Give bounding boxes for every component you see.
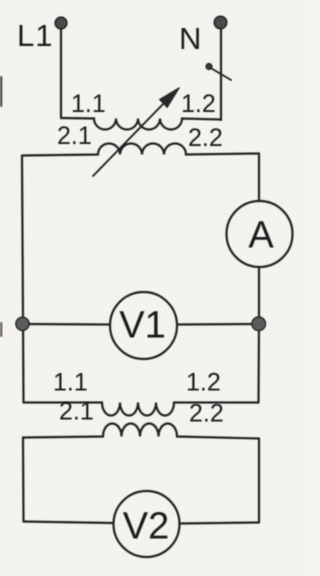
svg-text:V2: V2 bbox=[123, 506, 169, 548]
terminal L1 bbox=[55, 17, 67, 29]
transformer T2 primary winding 1.1-1.2 bbox=[24, 403, 259, 416]
svg-text:2.1: 2.1 bbox=[59, 398, 94, 426]
transformer T1 secondary winding 2.1-2.2 bbox=[22, 144, 259, 156]
wire V2 loop bottom left bbox=[24, 522, 114, 524]
svg-text:V1: V1 bbox=[119, 305, 165, 347]
wire V2 loop bottom right bbox=[180, 523, 260, 524]
wire L1 down bbox=[60, 29, 62, 118]
variac arrowhead bbox=[160, 88, 180, 108]
svg-text:2.2: 2.2 bbox=[188, 124, 223, 152]
variac arrow shaft bbox=[93, 100, 167, 176]
wire V1 row left bbox=[23, 323, 111, 326]
wire right vertical (ammeter to junction) bbox=[258, 267, 260, 324]
junction dot left bbox=[16, 317, 29, 330]
transformer T1 primary winding 1.1-1.2 bbox=[61, 118, 221, 130]
transformer T2 secondary winding 2.1-2.2 bbox=[23, 424, 259, 439]
voltmeter V2 bbox=[114, 491, 180, 557]
wire right vertical upper (T1 sec to ammeter) bbox=[258, 154, 260, 202]
svg-text:2.2: 2.2 bbox=[189, 400, 224, 428]
terminal N bbox=[214, 16, 226, 28]
svg-text:L1: L1 bbox=[17, 18, 53, 53]
ammeter A bbox=[227, 201, 293, 267]
wire right vertical (junction to T2) bbox=[257, 324, 260, 403]
junction dot right bbox=[252, 317, 266, 331]
svg-text:A: A bbox=[248, 215, 274, 257]
svg-text:1.1: 1.1 bbox=[53, 369, 88, 397]
switch contact dot bbox=[206, 64, 212, 70]
svg-text:1.1: 1.1 bbox=[71, 90, 106, 118]
scan smudge left edge middle bbox=[0, 322, 2, 337]
wire V2 loop right vertical bbox=[258, 439, 260, 523]
svg-text:1.2: 1.2 bbox=[186, 369, 221, 397]
scan smudge left edge upper bbox=[0, 76, 2, 107]
wire V1 row right bbox=[177, 323, 259, 326]
svg-text:2.1: 2.1 bbox=[57, 122, 92, 150]
svg-text:N: N bbox=[179, 21, 201, 56]
wire left vertical (T1 sec to T2 pri) bbox=[22, 156, 24, 403]
wire N down bbox=[220, 29, 222, 120]
switch blade bbox=[212, 69, 232, 81]
voltmeter V1 bbox=[110, 292, 177, 359]
wire V2 loop left vertical bbox=[22, 438, 25, 522]
svg-text:1.2: 1.2 bbox=[181, 90, 216, 118]
